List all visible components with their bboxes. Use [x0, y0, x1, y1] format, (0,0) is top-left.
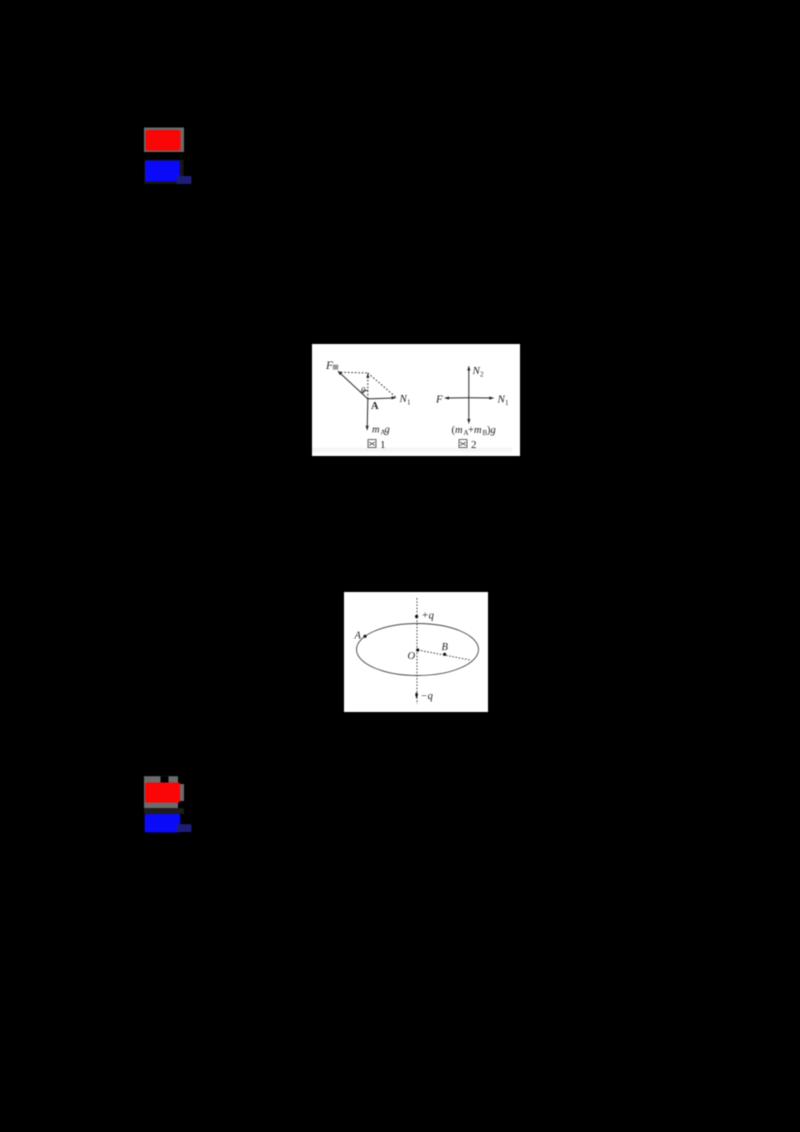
svg-text:−q: −q — [421, 691, 433, 702]
svg-text:m: m — [474, 425, 482, 436]
svg-text:F: F — [435, 394, 443, 406]
svg-text:g: g — [385, 425, 390, 436]
svg-text:1: 1 — [380, 439, 386, 451]
svg-text:A: A — [354, 631, 362, 642]
svg-text:B: B — [442, 642, 449, 653]
svg-text:m: m — [455, 425, 463, 436]
svg-text:g: g — [491, 425, 496, 436]
svg-text:2: 2 — [471, 439, 477, 451]
svg-text:m: m — [372, 425, 380, 436]
svg-text:O: O — [408, 651, 416, 662]
svg-text:F: F — [325, 360, 334, 372]
svg-text:θ: θ — [361, 387, 366, 397]
svg-text:1: 1 — [407, 399, 411, 407]
svg-text:2: 2 — [480, 371, 484, 379]
svg-text:A: A — [371, 401, 379, 412]
svg-text:1: 1 — [505, 399, 509, 407]
svg-text:+q: +q — [422, 611, 434, 622]
